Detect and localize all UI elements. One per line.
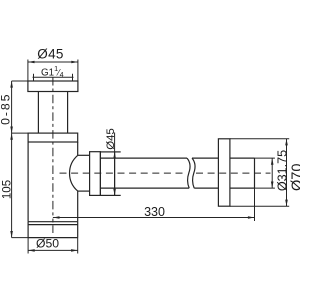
dim Ø45 pipe vertical line: [114, 133, 116, 196]
pipe break symbol: [187, 158, 195, 188]
pipe bottom: [100, 187, 254, 189]
collar: [100, 152, 120, 196]
inlet tube: [38, 92, 67, 134]
svg-text:105: 105: [1, 180, 13, 199]
label 105 rotated: [1, 180, 13, 199]
wall flange: [218, 139, 230, 206]
pipe top: [100, 157, 254, 159]
pipe end edge: [254, 158, 256, 188]
dim Ø50: [28, 238, 78, 254]
svg-text:Ø45: Ø45: [105, 128, 117, 150]
arrowheads Ø45 top: [28, 61, 78, 64]
dim G1 1/4 line with ticks: [33, 74, 74, 81]
top flange: [28, 81, 78, 92]
svg-text:Ø70: Ø70: [289, 164, 300, 191]
dim Ø31.75: [255, 158, 275, 188]
arrowheads 330: [53, 216, 255, 219]
lower flange: [28, 133, 78, 142]
label Ø45 pipe rotated: [105, 128, 117, 150]
bottom cap: [28, 222, 78, 238]
label Ø31.75 rotated: [275, 150, 289, 191]
arrowheads 0-85: [10, 81, 13, 133]
label 0-85 rotated: [0, 93, 13, 125]
label Ø70 rotated: [289, 164, 305, 191]
svg-text:Ø50: Ø50: [36, 237, 59, 251]
label Ø50: [36, 237, 59, 251]
label 330: [144, 205, 165, 219]
centerline trap vertical: [52, 77, 54, 233]
svg-text:G11⁄4: G11⁄4: [41, 64, 64, 79]
label G1 1/4: [41, 64, 64, 79]
dim Ø70: [230, 139, 289, 206]
dim Ø45 top: extension lines: [28, 60, 78, 82]
elbow arc: [70, 155, 78, 191]
svg-text:330: 330: [144, 205, 165, 219]
dim 0-85 and 105 left line: [12, 81, 29, 238]
arrowheads Ø31.75: [271, 158, 274, 188]
svg-text:Ø45: Ø45: [37, 47, 63, 62]
arrowheads Ø50: [28, 249, 78, 252]
nut: [90, 152, 101, 196]
centerline pipe horizontal: [60, 172, 271, 174]
svg-text:0-85: 0-85: [0, 93, 13, 125]
svg-text:Ø31.75: Ø31.75: [275, 150, 289, 191]
arrowheads Ø45 pipe: [113, 152, 116, 196]
arrowheads 105: [10, 133, 13, 238]
elbow tube: [78, 155, 90, 191]
label Ø45 top: [37, 47, 63, 62]
cup body: [28, 142, 78, 222]
arrowheads Ø70: [285, 139, 288, 206]
dim 330: [53, 188, 255, 221]
